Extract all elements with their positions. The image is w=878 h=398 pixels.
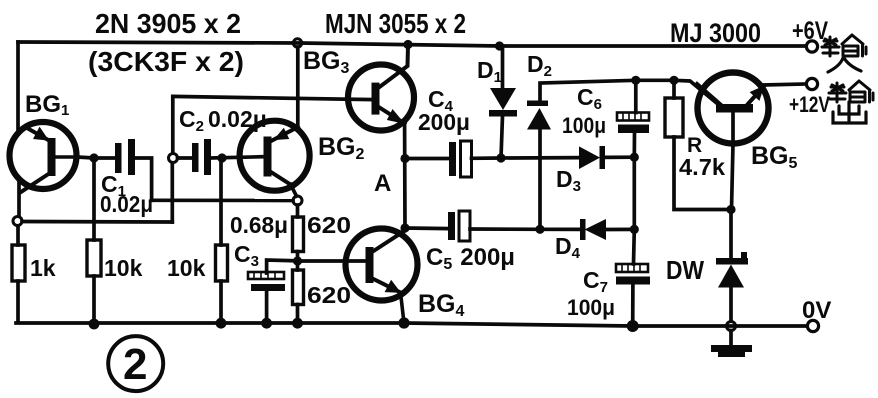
- transistor BG4: [346, 229, 418, 324]
- capacitor C3 plates: [248, 272, 285, 291]
- wire D3 to node: [605, 155, 634, 159]
- wire BG2 collector stub: [291, 184, 297, 196]
- node junction C5 left: [400, 223, 409, 232]
- wire C5 right to D2 node: [470, 227, 540, 231]
- wire node A vertical: [403, 126, 407, 230]
- wire 620-1 bottom: [296, 252, 300, 262]
- svg-text:200μ: 200μ: [418, 109, 470, 135]
- resistor R 4.7k: [665, 98, 683, 137]
- svg-text:620: 620: [307, 282, 351, 308]
- node junction C2 right: [217, 153, 226, 162]
- wire vertical riser x172: [170, 163, 174, 222]
- wire C5 line: [405, 226, 448, 230]
- wire 1k to 0V rail: [16, 281, 20, 322]
- node junction C4 left: [400, 154, 409, 163]
- capacitor C7 plates: [616, 264, 650, 285]
- node junction R top: [669, 76, 678, 85]
- transistor BG1: [10, 122, 78, 192]
- wire C2 right to BG2 base: [211, 157, 264, 158]
- svg-text:C20.02μ: C20.02μ: [179, 106, 267, 135]
- wire C7 bottom: [631, 285, 635, 327]
- wire C1 right to drop: [135, 158, 152, 200]
- svg-text:100μ: 100μ: [562, 113, 606, 138]
- wire 10k-3 vertical: [219, 158, 223, 245]
- ground: [711, 345, 752, 357]
- wire feed to R and BG5: [636, 80, 719, 105]
- resistor 10k-3: [216, 245, 228, 281]
- diode D1: [489, 88, 517, 117]
- wire y200 to BG2 collector node: [152, 198, 293, 202]
- node junction BG1 base: [89, 153, 98, 162]
- wire BG2 emitter riser: [296, 47, 300, 129]
- terminal +12V: [806, 78, 817, 89]
- diode D3: [579, 146, 605, 169]
- wire 10k-1 vertical: [92, 158, 96, 240]
- resistor 1k: [12, 245, 25, 281]
- resistor 10k-1: [87, 240, 101, 276]
- wire BG1 collector cross-coupling along y222: [22, 220, 172, 224]
- resistor 620-1: [293, 217, 304, 252]
- capacitor C6 plates: [617, 113, 649, 134]
- node junction rail 620: [292, 318, 303, 329]
- node junction rail C3: [261, 318, 272, 329]
- svg-text:MJN 3055 x 2: MJN 3055 x 2: [325, 8, 466, 39]
- wire D4 wires: [540, 227, 634, 231]
- svg-text:620: 620: [307, 212, 351, 238]
- capacitor C2 plates: [192, 139, 211, 175]
- wire D1 node to D3: [501, 156, 579, 160]
- transistor BG2: [240, 121, 310, 191]
- svg-text:2: 2: [123, 340, 147, 389]
- svg-text:(3CK3F x 2): (3CK3F x 2): [88, 46, 244, 77]
- wire C3 top link: [267, 260, 298, 273]
- node junction C6 mid: [630, 153, 639, 162]
- wire D2 vertical lower: [538, 130, 542, 229]
- wire top +6V rail: [18, 42, 806, 46]
- wire R bottom to BG5 base node: [674, 137, 731, 210]
- svg-text:10k: 10k: [104, 255, 143, 281]
- diode D4: [580, 219, 606, 240]
- svg-text:10k: 10k: [167, 255, 206, 281]
- node junction rail 10k-1: [89, 319, 100, 330]
- node junction C6 top: [631, 76, 640, 85]
- wire node to 1k resistor: [16, 226, 20, 245]
- node junction rail BG3: [403, 40, 412, 49]
- svg-text:0V: 0V: [802, 297, 831, 324]
- wire C6 vertical: [634, 80, 636, 264]
- wire D1 vertical: [501, 46, 503, 158]
- wire BG5 emitter to +12V: [763, 84, 806, 85]
- wire BG1 base to node: [77, 157, 115, 158]
- diode D2: [527, 101, 551, 130]
- node open junction left: [13, 217, 22, 226]
- figure circled 2: [108, 336, 163, 391]
- node junction rail D1: [495, 41, 504, 50]
- svg-text:4.7k: 4.7k: [679, 154, 725, 180]
- wire BG5 base vertical: [732, 112, 734, 210]
- svg-text:2N 3905 x 2: 2N 3905 x 2: [95, 8, 241, 39]
- svg-text:100μ: 100μ: [567, 295, 615, 320]
- wire BG1 collector down to node: [17, 180, 21, 216]
- node open junction DW rail: [727, 322, 736, 331]
- wire ground stub: [729, 331, 733, 347]
- wire D2 top feed: [540, 80, 636, 101]
- wire 0V bottom rail: [16, 323, 807, 326]
- wire riser to top feed: [171, 96, 175, 153]
- diode DW zener: [716, 252, 748, 288]
- wire left vertical from rail to BG1 emitter: [16, 42, 20, 131]
- svg-text:MJ 3000: MJ 3000: [670, 18, 761, 48]
- capacitor C5 plates: [448, 211, 470, 241]
- node junction D2 bottom: [535, 225, 544, 234]
- node open junction BG2 collector: [293, 196, 302, 205]
- wire 10k-1 to rail: [92, 276, 96, 324]
- node junction BG4 base: [293, 256, 302, 265]
- svg-text:+12V: +12V: [789, 92, 830, 117]
- wire feed to BG3 base: [173, 96, 372, 99]
- node open junction on rail: [293, 39, 301, 47]
- node junction rail 10k-3: [216, 318, 227, 329]
- terminal +6V: [806, 41, 817, 52]
- wire C4 right to D1 node: [472, 156, 502, 160]
- wire DW top: [729, 210, 733, 259]
- transistor BG5: [697, 73, 769, 144]
- transistor BG3: [348, 46, 414, 131]
- terminal 0V: [807, 320, 818, 331]
- wire C4 line left: [405, 157, 449, 161]
- wire R top: [672, 80, 676, 98]
- label shuchu chinese output: [829, 81, 873, 102]
- wire C3 bottom: [265, 291, 269, 323]
- capacitor C1 plates: [115, 139, 135, 175]
- svg-text:1k: 1k: [30, 255, 56, 281]
- svg-text:0.02μ: 0.02μ: [100, 191, 153, 217]
- node junction D1 bottom: [496, 153, 505, 162]
- wire 620-1 top: [296, 205, 300, 217]
- wire 10k-3 to rail: [219, 281, 223, 323]
- node junction rail C7: [627, 320, 639, 332]
- svg-text:C5200μ: C5200μ: [426, 244, 515, 273]
- svg-text:0.68μ: 0.68μ: [230, 212, 288, 238]
- svg-text:A: A: [374, 170, 391, 197]
- wire C2 left: [178, 156, 193, 160]
- node junction D4 right: [630, 225, 639, 234]
- resistor 620-2: [293, 270, 304, 305]
- wire BG4 base: [298, 259, 367, 263]
- node junction BG5 base: [726, 205, 735, 214]
- node open junction C2 left: [169, 154, 178, 163]
- node junction rail BG4 emitter: [398, 317, 409, 328]
- wire 620-2 wires: [296, 261, 300, 323]
- svg-text:DW: DW: [666, 255, 704, 285]
- label shuru chinese input: [822, 35, 866, 56]
- capacitor C4 plates: [449, 141, 472, 177]
- wire DW bottom: [729, 287, 733, 321]
